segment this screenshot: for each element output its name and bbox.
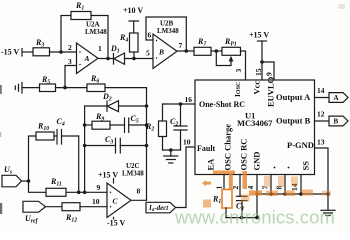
capacitor C4 (54, 130, 79, 145)
svg-text:10: 10 (183, 138, 191, 147)
upper ground bus (257, 193, 328, 195)
wire branch to pin9 (262, 62, 274, 80)
node output B (185, 49, 189, 53)
terminal +10V (129, 21, 139, 33)
svg-text:GND: GND (252, 152, 262, 171)
wire pin9 row (66, 191, 107, 193)
resistor R2 vertical (159, 104, 167, 150)
svg-text:15: 15 (254, 68, 263, 76)
resistor R3 (33, 48, 50, 56)
node R7/RP1 (215, 49, 219, 53)
svg-text:3: 3 (68, 57, 72, 66)
IC U1 MC34067 body (195, 80, 315, 175)
svg-text:LM348: LM348 (85, 28, 107, 36)
svg-text:B: B (158, 48, 164, 57)
wire node up to R1 row (61, 16, 71, 53)
op-amp U2A (77, 43, 99, 74)
svg-text:SS: SS (301, 161, 311, 171)
wire D1 to pin5 (125, 58, 154, 60)
resistor R9 + capacitor C5 row (85, 118, 147, 132)
connector Ia-dect (146, 202, 176, 213)
svg-text:12: 12 (317, 110, 325, 119)
terminal +15V (258, 41, 267, 80)
svg-text:-15 V: -15 V (1, 48, 20, 57)
svg-text:9: 9 (97, 183, 101, 192)
wire R6 to rail (105, 87, 147, 89)
svg-text:1: 1 (215, 186, 224, 190)
wire R4 to node (133, 52, 135, 59)
ground (R2/C2) (164, 150, 178, 163)
opamp C input dots (110, 192, 111, 193)
node D2 right (145, 104, 149, 108)
P-GND pin13 wire (315, 148, 329, 210)
svg-text:OSC RC: OSC RC (239, 139, 249, 171)
connector A (329, 93, 348, 103)
svg-text:1: 1 (98, 44, 102, 53)
connector Us (2, 175, 22, 187)
svg-text:5: 5 (146, 49, 150, 58)
wire U2C output (131, 199, 147, 201)
resistor R12 (62, 203, 80, 211)
rail feedback right (146, 88, 148, 201)
node rail C4 (77, 191, 81, 195)
node pin4 bus low (255, 216, 259, 220)
ground (bottom right) (321, 210, 335, 215)
wire Uref to R12 (46, 206, 63, 208)
node R4 bottom (132, 57, 136, 61)
wire output row A to D1 (98, 58, 114, 60)
chip pin4 long stub (256, 175, 258, 218)
svg-text:6: 6 (148, 31, 152, 40)
pin10 Fault stub wire (176, 147, 196, 208)
feedback loop U2B pin6 (146, 17, 186, 51)
svg-text:14: 14 (317, 86, 325, 95)
svg-text:9: 9 (265, 72, 274, 76)
chip pin14 stub (300, 175, 302, 195)
chip pin8 stub (284, 175, 286, 195)
wire Us to node (22, 180, 29, 182)
svg-text:Output B: Output B (276, 116, 311, 126)
resistor R6 (87, 84, 105, 92)
svg-text:+15 V: +15 V (249, 31, 269, 40)
capacitor C2 (174, 104, 187, 150)
svg-text:A: A (334, 94, 339, 102)
resistor R5 (40, 84, 56, 92)
pin12 OutputB wire (315, 120, 330, 122)
wire R12 to pin10 (80, 206, 107, 208)
U2C +15V stub (113, 179, 115, 184)
svg-text:2: 2 (68, 43, 72, 52)
node at R3/pin2 (59, 50, 63, 54)
wire output B row (177, 50, 194, 52)
svg-text:10: 10 (92, 197, 100, 206)
node C1 bus (240, 216, 244, 220)
lower ground bus (226, 217, 257, 219)
svg-text:8: 8 (137, 187, 141, 196)
join wire to ground (163, 149, 181, 151)
star marks (274, 167, 276, 169)
resistor R7 (194, 47, 211, 55)
rail Us up to R10 row (29, 136, 37, 181)
wire RP1 to pin3 of U1 (241, 51, 246, 80)
rail network left (84, 106, 86, 192)
svg-text:LM348: LM348 (157, 27, 179, 35)
svg-text:3: 3 (234, 69, 243, 73)
connector B (329, 116, 348, 126)
node R9 row left (83, 123, 87, 127)
opamp B input dots (156, 40, 157, 41)
wire R3 to node (50, 51, 77, 53)
chip bottom pin1 stub (223, 175, 225, 190)
R1 bottom lead (225, 208, 227, 218)
capacitor C1 (237, 196, 248, 217)
node C2 top (179, 102, 183, 106)
svg-text:Fault: Fault (197, 144, 216, 153)
wire Us node to R11 (29, 181, 47, 192)
resistor R1 vertical (222, 190, 232, 209)
node C3 row left (83, 144, 87, 148)
svg-text:Ia-dect: Ia-dect (148, 204, 169, 213)
opamp A input dots (79, 51, 80, 52)
svg-text:7: 7 (179, 41, 183, 50)
capacitor C3 row (85, 138, 147, 153)
chip pin7 stub (270, 175, 272, 195)
ground (left R5) (15, 83, 39, 94)
svg-text:4: 4 (246, 186, 255, 190)
node output A (106, 57, 110, 61)
wire R7 to RP1 (211, 50, 222, 52)
svg-text:A: A (84, 54, 90, 63)
svg-text:13: 13 (317, 138, 325, 147)
node pin4 upper bus (255, 192, 259, 196)
RP1 wiper arrowhead (229, 56, 234, 62)
node +15V branch (260, 60, 264, 64)
orange watermark marks (202, 171, 331, 208)
wire R5 to node3 (56, 87, 88, 89)
svg-text:+10 V: +10 V (123, 6, 143, 15)
svg-text:B: B (334, 118, 339, 126)
resistor R4 vertical (130, 33, 139, 52)
svg-text:OSC Charge: OSC Charge (223, 124, 233, 171)
node R9 row right (145, 123, 149, 127)
svg-text:LM348: LM348 (122, 170, 144, 178)
resistor R1 (71, 12, 91, 20)
svg-text:www.cntronics.com: www.cntronics.com (174, 207, 335, 228)
resistor R10 (36, 132, 54, 140)
node rail network (83, 191, 87, 195)
potentiometer RP1 (222, 47, 241, 55)
pin16 stub wire (163, 103, 196, 105)
svg-text:+15 V: +15 V (98, 171, 118, 180)
RP1 wiper wire (216, 51, 231, 66)
pin14 OutputA wire (315, 97, 330, 99)
op-amp U2B (153, 34, 177, 69)
node Us (27, 179, 31, 183)
svg-text:EUVLO: EUVLO (266, 76, 276, 107)
node ground join (169, 148, 173, 152)
rail C4 down to pin9 row (78, 136, 80, 192)
svg-text:EA: EA (206, 158, 216, 171)
node C3 row right (145, 144, 149, 148)
svg-text:P-GND: P-GND (287, 140, 314, 150)
pin 3 stub wire (65, 66, 77, 88)
node pin3 (63, 86, 67, 90)
svg-text:-15 V: -15 V (107, 219, 126, 228)
resistor R11 (46, 188, 66, 196)
diode D2 row (85, 101, 147, 112)
U2C -15V stub (113, 217, 115, 219)
op-amp U2C (107, 183, 131, 218)
svg-text:MC34067: MC34067 (237, 118, 273, 128)
diode D1 (114, 53, 125, 64)
svg-text:One-Shot RC: One-Shot RC (199, 100, 245, 109)
svg-text:Vcc: Vcc (252, 81, 262, 95)
svg-text:16: 16 (185, 95, 193, 104)
svg-text:Output A: Output A (276, 92, 311, 102)
terminal -15V (22, 49, 33, 57)
wire R1 to output node (91, 16, 108, 59)
connector Uref (23, 201, 46, 212)
chip pin2 stub (239, 175, 241, 197)
